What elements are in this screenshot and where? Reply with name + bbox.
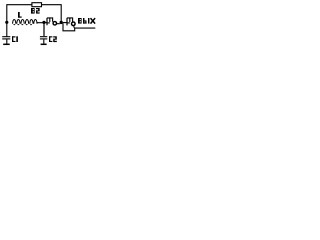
wire left vertical	[6, 4, 8, 36]
value label B2 of resistor	[31, 8, 40, 14]
capacitor C1 top lead	[6, 35, 8, 37]
coil crossing dots	[14, 23, 32, 26]
connector X2 circle contact	[72, 22, 76, 26]
wire jog down	[63, 23, 75, 31]
wire node2 to connector X2	[63, 22, 67, 24]
capacitor C1 bottom lead	[6, 39, 8, 43]
wire node to connector X1	[45, 22, 47, 24]
ground C2	[41, 43, 47, 45]
capacitor C1 plates	[2, 36, 10, 38]
label C2	[49, 36, 57, 42]
capacitor C2 top lead	[43, 24, 45, 37]
node dot B (center)	[42, 21, 45, 24]
label C1	[12, 36, 18, 42]
resistor B2	[32, 3, 42, 7]
wire right vertical	[60, 4, 62, 22]
node dot A (left)	[5, 21, 8, 24]
label L	[18, 12, 22, 18]
wire X1 circle to node2	[57, 23, 60, 25]
connector X1 circle contact	[53, 22, 57, 26]
connector X2 lead to output wire	[73, 26, 76, 29]
node dot C (right)	[60, 21, 63, 24]
capacitor C2 bottom lead	[43, 39, 45, 43]
label VYKH text	[78, 18, 95, 24]
inductor L coil arcs	[13, 20, 37, 24]
wire top	[7, 4, 61, 6]
connector X1 socket body	[46, 18, 48, 25]
wire output to right	[74, 27, 95, 29]
wire coil to node	[37, 22, 43, 24]
ground C1	[3, 43, 10, 45]
connector X2 (output VYKH) socket body	[66, 18, 68, 26]
capacitor C2 plates	[40, 36, 47, 38]
